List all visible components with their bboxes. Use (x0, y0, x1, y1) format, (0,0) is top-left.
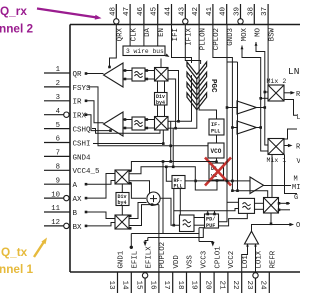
svg-text:R: R (296, 91, 300, 99)
svg-text:G: G (294, 194, 298, 202)
pin 19 VCC3 (bottom) (190, 251, 209, 293)
annotation Q_rx / Channel 2 (0, 4, 34, 36)
svg-text:43: 43 (178, 6, 186, 16)
wire Mix3 right b (278, 209, 290, 212)
wire A1-F1 a (123, 69, 155, 72)
svg-text:39: 39 (234, 6, 242, 16)
wire Mix2 out arrow (284, 91, 295, 94)
svg-text:14: 14 (121, 281, 129, 291)
pin 7 GND4 (left) (44, 150, 91, 163)
wire M1-DIV4A a (157, 81, 159, 93)
pin 14 EFIL (bottom) (121, 251, 140, 293)
pin 16 PUPLO2 (bottom) (148, 242, 167, 293)
svg-text:A: A (73, 182, 78, 190)
svg-text:Mix 1: Mix 1 (267, 157, 287, 164)
wire B to M4 (85, 211, 115, 219)
wire A4 out (257, 126, 263, 129)
node R2 (right edge) (296, 144, 301, 152)
svg-text:23: 23 (245, 281, 253, 291)
node G fragment (294, 194, 298, 202)
svg-text:4: 4 (56, 108, 61, 116)
svg-text:45: 45 (151, 6, 159, 16)
mixer M2 (155, 117, 169, 131)
wire M3 out b to summer (129, 181, 150, 194)
wire MOX arrow (241, 46, 268, 152)
svg-text:5: 5 (56, 122, 60, 130)
wire F4 to Mix3 (255, 203, 264, 209)
wire F3-PD a (194, 217, 205, 219)
mixer Mix3 (264, 198, 279, 214)
red cross over DIV2 (205, 158, 231, 186)
wire QRX to A1 (108, 25, 116, 69)
wire F3-PD b (194, 224, 205, 226)
wire CSHI (93, 130, 165, 145)
IF-PLL block (209, 119, 224, 135)
pin 48 QRX (top) (109, 4, 124, 41)
filter F3 (180, 215, 195, 232)
wire A5 out (264, 185, 292, 187)
svg-text:Q_rx: Q_rx (0, 4, 27, 18)
wire VCO to DIV2 (216, 158, 219, 182)
wire Mix3 right a (278, 202, 290, 205)
mixer Mix1 (267, 139, 287, 165)
annotation Q_tx / Channel 1 (0, 245, 34, 276)
RF-PLL block (172, 176, 185, 190)
wire RF-PLL to DIV2 (185, 180, 250, 183)
PD/PUF block (205, 214, 219, 229)
pin 24 REFR (bottom) (259, 250, 278, 293)
wire A2-F2 a (123, 118, 155, 121)
wire DIV4A-M2 a (157, 105, 159, 117)
VCO block (208, 143, 224, 158)
svg-text:3: 3 (56, 94, 60, 102)
wire Mix1 out arrow (284, 144, 293, 147)
svg-text:R: R (296, 144, 300, 152)
svg-text:O: O (296, 222, 300, 230)
svg-text:L: L (297, 114, 301, 122)
wire to CPLO1 arrow (199, 242, 215, 247)
svg-text:44: 44 (165, 6, 173, 16)
svg-text:IFI: IFI (172, 28, 180, 41)
svg-text:nnel 2: nnel 2 (0, 22, 34, 36)
svg-text:FSYS: FSYS (73, 85, 92, 93)
wire IF-PLL to VCO (216, 135, 218, 143)
svg-text:BSW: BSW (268, 27, 276, 41)
svg-text:CSHQ: CSHQ (73, 127, 92, 135)
wire DIV4B-M4 (121, 206, 123, 216)
wire RF-PLL down b (179, 189, 181, 216)
wire DIV4A-M2 b (164, 105, 166, 117)
svg-text:37: 37 (261, 7, 269, 16)
svg-text:6: 6 (56, 136, 60, 144)
summer S1 (147, 192, 160, 205)
filter F1 (132, 68, 145, 81)
svg-text:LN: LN (288, 66, 299, 77)
svg-text:CPLO2: CPLO2 (213, 28, 221, 50)
wire IFI to PGC (172, 25, 192, 64)
svg-text:VCC2: VCC2 (228, 251, 236, 269)
wire A3 out (257, 106, 267, 109)
svg-text:PGC: PGC (209, 79, 217, 93)
wire M1 out a down (168, 71, 180, 123)
wire S1 to F3 (160, 198, 180, 226)
wire Mix1 corner (285, 155, 298, 194)
wire M3-DIV4B (121, 184, 123, 193)
pin 10 AX (left) (44, 191, 82, 204)
svg-text:VSS: VSS (187, 255, 195, 269)
svg-text:EFIL: EFIL (132, 251, 140, 269)
divider DIV4A (155, 93, 168, 107)
wire IRX to A2 (85, 113, 112, 132)
svg-text:16: 16 (148, 281, 156, 291)
wire M2 out b (168, 128, 176, 168)
svg-text:Mix 2: Mix 2 (267, 78, 287, 85)
pin 46 DA (top) (137, 4, 152, 37)
svg-text:9: 9 (56, 177, 60, 185)
svg-text:VCC4_5: VCC4_5 (73, 168, 101, 176)
filter F2 (132, 117, 145, 130)
node L (right edge) (297, 114, 301, 122)
svg-text:PUF: PUF (206, 223, 215, 229)
divider DIV2 (crossed out) (209, 163, 224, 180)
svg-text:PLL: PLL (211, 129, 220, 135)
svg-text:24: 24 (259, 281, 267, 291)
wire M3 out a to DIV2 (129, 167, 217, 190)
pin 5 CSHQ (left) (44, 122, 91, 135)
pin 6 CSHI (left) (44, 136, 91, 149)
pin 44 IFI (top) (165, 4, 180, 41)
svg-text:by4: by4 (118, 200, 127, 206)
wire CLK to bus (129, 25, 131, 47)
pin 11 B (left) (44, 205, 78, 218)
IC package border (70, 25, 300, 273)
svg-text:MOX: MOX (241, 27, 249, 41)
wire A to M3 (85, 181, 115, 186)
svg-text:EFILX: EFILX (145, 246, 153, 269)
svg-text:11: 11 (51, 205, 60, 213)
pin 12 BX (left) (44, 219, 82, 232)
svg-text:2: 2 (56, 80, 60, 88)
wire PLLON to IF-PLL (199, 25, 216, 120)
svg-text:IFIX: IFIX (186, 27, 194, 45)
svg-text:QRX: QRX (117, 27, 125, 41)
op-amp A4 (237, 121, 257, 134)
svg-text:IRX: IRX (73, 113, 87, 121)
svg-text:BX: BX (73, 224, 83, 232)
svg-text:1: 1 (56, 66, 61, 74)
svg-text:GND4: GND4 (73, 154, 92, 162)
wire AX to M3 (85, 174, 115, 200)
svg-text:CSHI: CSHI (73, 140, 91, 148)
PGC gain block (187, 62, 217, 110)
svg-text:18: 18 (176, 281, 184, 291)
svg-text:VDD: VDD (173, 255, 181, 269)
svg-text:M: M (294, 176, 298, 184)
svg-text:PUPLO2: PUPLO2 (159, 242, 167, 269)
wire Mix1 bottom (271, 155, 273, 198)
pin 1 QR (left) (44, 66, 82, 79)
svg-text:12: 12 (51, 219, 60, 227)
svg-text:19: 19 (190, 281, 198, 291)
svg-text:38: 38 (247, 6, 255, 16)
mixer M4 (B channel) (115, 215, 129, 229)
wire M1 out b down (168, 79, 177, 130)
svg-text:CPLO1: CPLO1 (214, 246, 222, 269)
svg-text:21: 21 (217, 281, 225, 291)
pin 17 VDD (bottom) (162, 255, 181, 293)
svg-text:GND3: GND3 (227, 28, 235, 46)
svg-text:GND1: GND1 (118, 250, 126, 268)
wire PD right (174, 209, 239, 211)
wire edge to Mix1 (284, 129, 297, 139)
wire A2-F2 b (123, 127, 155, 130)
node LN label (288, 66, 299, 77)
svg-text:47: 47 (123, 7, 131, 16)
wire M3 corner up to PLL (129, 161, 218, 173)
wire into RF-PLL left (165, 166, 172, 182)
pin 39 MOX (top) (234, 4, 249, 41)
wire MO arrow (255, 42, 268, 145)
wire PGC out a (179, 75, 192, 121)
pin 38 MO (top) (247, 4, 262, 37)
svg-text:13: 13 (107, 281, 115, 291)
wire A3 in (227, 107, 237, 109)
node MI fragment (292, 184, 300, 192)
mixer M3 (A channel) (115, 170, 129, 184)
svg-text:CLK: CLK (130, 27, 138, 41)
mixer Mix2 (267, 78, 287, 101)
wire IR to A2 (85, 100, 104, 123)
wire CPLO2 down (213, 25, 234, 193)
svg-text:10: 10 (51, 191, 60, 199)
pin 2 FSYS (left) (44, 80, 91, 93)
node V fragment (297, 158, 302, 166)
svg-text:LO1: LO1 (242, 255, 250, 269)
svg-text:8: 8 (56, 164, 60, 172)
pin 4 IRX (left) (44, 108, 87, 121)
svg-text:MI: MI (292, 184, 300, 192)
pin 45 EN (top) (151, 4, 166, 37)
svg-text:QR: QR (73, 71, 83, 79)
wire A4 in (232, 127, 237, 129)
svg-text:VCO: VCO (211, 148, 222, 155)
svg-text:MO: MO (255, 27, 263, 36)
svg-text:22: 22 (231, 281, 239, 291)
pin 15 EFILX (bottom) (135, 246, 154, 293)
wire Mix3 bottom tap (270, 213, 273, 225)
svg-text:48: 48 (109, 6, 117, 16)
pin 20 CPLO1 (bottom) (204, 246, 223, 293)
wire QR to A1 (85, 72, 104, 75)
pin 42 PLLON (top) (192, 4, 207, 50)
pin 3 IR (left) (44, 94, 82, 107)
wire M2 out a (168, 121, 179, 163)
wire PGC out b (176, 79, 197, 128)
wire Mix2 bottom (284, 100, 297, 116)
wire BX to M4 (85, 223, 115, 228)
op-amp A6 (LO buffer) (245, 231, 259, 246)
divider DIV4B (116, 193, 129, 207)
pin 41 CPLO2 (top) (206, 4, 221, 50)
op-amp A2 (I output amp) (104, 112, 124, 136)
wire into Mix3 top (232, 191, 267, 198)
wire PD top stubs (206, 211, 215, 216)
3 wire bus box (123, 46, 170, 58)
svg-text:B: B (73, 210, 78, 218)
pin 8 VCC4_5 (left) (44, 164, 100, 177)
wire A6 out to O (252, 223, 295, 231)
op-amp A1 (Q output amp) (104, 63, 124, 87)
wire LO1 to A6 (242, 244, 248, 273)
svg-text:VCC3: VCC3 (201, 251, 209, 269)
annotation arrow to BX pin (34, 236, 49, 257)
wire Mix2 in a (264, 91, 269, 94)
wire PD right out b (219, 213, 248, 226)
filter F4 (239, 198, 255, 213)
wire F4 in a (227, 201, 239, 203)
svg-text:IR: IR (73, 99, 83, 107)
svg-text:DA: DA (144, 27, 152, 36)
wire FSYS to VCO (88, 87, 208, 147)
wire M3 corner to summer (129, 182, 146, 198)
wire LO1X to A6 (255, 244, 257, 273)
wire GND3 down (219, 25, 229, 222)
svg-text:7: 7 (56, 150, 60, 158)
wire CSHQ (92, 129, 160, 134)
wire Mix2 in b (259, 97, 268, 100)
svg-text:PLLON: PLLON (199, 28, 207, 50)
wire bus to M1 (160, 59, 162, 68)
wire GND3 branch (227, 62, 239, 192)
wire RF-PLL down a (173, 189, 175, 226)
pin 22 LO1 (bottom) (231, 255, 250, 293)
svg-text:LO1X: LO1X (256, 250, 264, 268)
svg-text:nnel 1: nnel 1 (0, 262, 34, 276)
pin 21 VCC2 (bottom) (217, 251, 236, 293)
pin 13 GND1 (bottom) (107, 250, 126, 293)
pin 40 GND3 (top) (220, 4, 235, 46)
pin 23 LO1X (bottom) (245, 250, 264, 293)
node R (right edge top) (296, 91, 301, 99)
svg-text:AX: AX (73, 196, 83, 204)
op-amp A3 (237, 101, 257, 114)
svg-text:EN: EN (158, 28, 166, 37)
wire down from PLL rail (162, 160, 165, 233)
wire M4 out b (129, 203, 159, 229)
pin 47 CLK (top) (123, 4, 138, 41)
wire M1-DIV4A b (164, 81, 166, 93)
svg-text:46: 46 (137, 6, 145, 16)
pin 37 BSW (top) (261, 4, 276, 41)
node O fragment (296, 222, 300, 230)
pin 9 A (left) (44, 177, 78, 190)
wire EFILX (143, 228, 203, 246)
pin 18 VSS (bottom) (176, 255, 195, 293)
svg-text:17: 17 (162, 281, 170, 290)
svg-text:40: 40 (220, 6, 228, 16)
mixer M1 (155, 68, 169, 82)
node M fragment (294, 176, 298, 184)
svg-text:15: 15 (135, 281, 143, 291)
wire BSW to Mix2 (267, 25, 269, 86)
svg-text:3 wire bus: 3 wire bus (126, 48, 164, 55)
wire IFIX to PGC (185, 25, 200, 65)
op-amp A5 (250, 177, 264, 194)
wire EFIL (130, 228, 205, 249)
svg-text:V: V (297, 158, 301, 166)
annotation arrow to QRX pin (37, 9, 102, 21)
pin 43 IFIX (top) (178, 4, 193, 46)
svg-text:20: 20 (204, 281, 212, 291)
svg-text:42: 42 (192, 6, 200, 16)
wire PUPLO2 (158, 205, 160, 272)
wire EN to bus (157, 25, 159, 47)
svg-text:Q_tx: Q_tx (1, 245, 28, 259)
svg-text:REFR: REFR (270, 250, 278, 268)
svg-text:PLL: PLL (174, 184, 183, 190)
svg-text:IF-: IF- (211, 122, 220, 128)
wire M4 out a (129, 203, 147, 219)
svg-text:PD/: PD/ (206, 217, 215, 223)
wire A1-F1 b (123, 78, 155, 81)
wire DA to bus (143, 25, 145, 47)
svg-text:41: 41 (206, 6, 214, 16)
